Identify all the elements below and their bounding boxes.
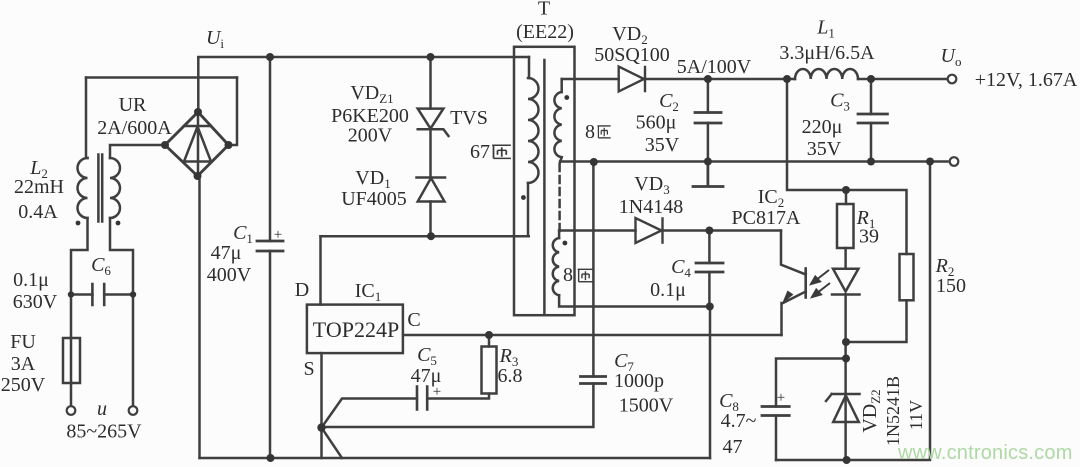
svg-text:11V: 11V bbox=[906, 400, 926, 430]
svg-text:u: u bbox=[97, 398, 107, 420]
svg-text:Ui: Ui bbox=[206, 27, 224, 51]
wire C4 bottom to bias return bbox=[708, 272, 711, 307]
svg-text:67: 67 bbox=[470, 141, 490, 163]
svg-text:+12V, 1.67A: +12V, 1.67A bbox=[975, 69, 1078, 91]
svg-text:VDZ2: VDZ2 bbox=[859, 389, 883, 432]
transformer T primary winding 67 turns bbox=[528, 78, 539, 183]
common-mode choke L2 left winding bbox=[78, 158, 88, 218]
turns glyph auxiliary bbox=[578, 269, 593, 281]
svg-text:0.1μ: 0.1μ bbox=[13, 269, 49, 291]
wire C5 to R3 bottom bbox=[427, 394, 489, 399]
wire D pin vertical bbox=[319, 236, 322, 304]
junction node C6 left bbox=[68, 291, 74, 297]
wire secondary top lead bbox=[560, 79, 563, 92]
opto light arrow 2 bbox=[812, 283, 830, 297]
transformer core dashed line bbox=[558, 164, 561, 231]
wire auxiliary winding top lead bbox=[558, 231, 561, 239]
wire C8 bottom bbox=[775, 416, 778, 461]
output terminal return bbox=[950, 157, 959, 166]
choke L2 core lines bbox=[98, 155, 102, 222]
svg-text:22mH: 22mH bbox=[14, 176, 64, 198]
svg-text:S: S bbox=[303, 358, 314, 380]
opto emitter arrowhead bbox=[782, 291, 794, 304]
junction node R1 top bbox=[842, 186, 850, 194]
svg-text:VDZ1: VDZ1 bbox=[350, 82, 393, 106]
phase dot auxiliary bbox=[563, 241, 568, 246]
wire top DC rail bbox=[198, 56, 529, 59]
junction node S pin bbox=[317, 423, 325, 431]
svg-text:www.cntronics.com: www.cntronics.com bbox=[897, 442, 1073, 464]
svg-text:150: 150 bbox=[936, 275, 966, 297]
svg-text:UF4005: UF4005 bbox=[341, 188, 407, 210]
wire L2 left bottom lead bbox=[71, 218, 88, 295]
capacitor C6 leads bbox=[71, 293, 133, 296]
junction node top rail clamp bbox=[427, 53, 435, 61]
wire C1 bottom to rail bbox=[269, 251, 272, 458]
wire LED cathode down bbox=[844, 295, 847, 461]
junction node VD3 C4 bbox=[705, 227, 713, 235]
turns glyph primary bbox=[492, 145, 511, 158]
output terminal plus bbox=[948, 75, 957, 84]
svg-text:85~265V: 85~265V bbox=[66, 421, 142, 443]
svg-text:+: + bbox=[433, 384, 441, 400]
optocoupler IC2 phototransistor bbox=[804, 269, 807, 298]
svg-text:C2: C2 bbox=[659, 90, 679, 114]
phase dot L2 right bbox=[116, 221, 121, 226]
svg-text:1N4148: 1N4148 bbox=[619, 196, 683, 218]
svg-text:FU: FU bbox=[10, 331, 36, 353]
wire C3 bottom bbox=[870, 123, 873, 162]
junction node drain line bbox=[427, 232, 435, 240]
transformer T auxiliary winding 8 turns bbox=[553, 238, 559, 295]
svg-text:39: 39 bbox=[859, 226, 879, 248]
svg-text:(EE22): (EE22) bbox=[516, 21, 574, 43]
wire C7 top to secondary ground bbox=[592, 162, 595, 377]
wire C1 branch vertical bbox=[269, 57, 272, 241]
wire primary ground rail bbox=[200, 457, 711, 460]
phase dot primary bbox=[521, 195, 526, 200]
transformer core line bbox=[543, 60, 546, 313]
svg-text:C3: C3 bbox=[830, 90, 850, 114]
wire S fan to primary ground rail bbox=[322, 428, 343, 458]
svg-text:47: 47 bbox=[723, 436, 743, 458]
resistor R1 branch bbox=[845, 190, 848, 204]
wire C6 left node down to fuse bbox=[70, 295, 73, 339]
wire L2 right winding top lead to bridge left vertex bbox=[110, 145, 165, 158]
svg-text:2A/600A: 2A/600A bbox=[97, 117, 172, 139]
wire feedback feed from L1 left node bbox=[787, 79, 907, 254]
capacitor C4 plates bbox=[696, 263, 723, 272]
wire auxiliary bottom lead bbox=[559, 295, 710, 306]
svg-text:5A/100V: 5A/100V bbox=[677, 56, 752, 78]
resistor R3 body bbox=[482, 347, 497, 394]
wire S fan to C5 line bbox=[322, 399, 418, 428]
svg-text:T: T bbox=[538, 0, 550, 20]
capacitor C2 branch bbox=[707, 79, 710, 113]
capacitor C4 branch bbox=[708, 231, 711, 264]
svg-text:400V: 400V bbox=[207, 264, 252, 286]
svg-text:8: 8 bbox=[585, 121, 595, 143]
svg-text:+: + bbox=[274, 227, 282, 243]
wire R3 top to control line bbox=[488, 335, 491, 347]
wire bridge bottom down to ground rail bbox=[198, 176, 201, 458]
wire loop right vertical to bridge right vertex bbox=[229, 78, 238, 146]
capacitor C5 plates bbox=[417, 387, 427, 410]
fuse FU body bbox=[63, 338, 80, 383]
wire top-left loop horizontal bbox=[86, 76, 237, 79]
junction node C2 bottom bbox=[704, 158, 712, 166]
capacitor C2 plates bbox=[695, 113, 721, 124]
junction node ground rail C1 bbox=[267, 454, 275, 462]
phase dot secondary bbox=[564, 95, 569, 100]
svg-text:250V: 250V bbox=[1, 374, 46, 396]
svg-text:TVS: TVS bbox=[450, 107, 488, 129]
wire drain line D bbox=[321, 235, 529, 238]
junction node top rail C1 bbox=[266, 53, 274, 61]
TVS VDZ1 bbox=[418, 109, 449, 136]
svg-text:L1: L1 bbox=[816, 17, 835, 41]
LED of optocoupler IC2 bbox=[832, 269, 860, 295]
diode VD3 line bbox=[559, 229, 781, 232]
op-amp U1 IC1 TOP224P box bbox=[307, 305, 403, 354]
svg-text:IC1: IC1 bbox=[355, 280, 382, 304]
wire R2 bottom bbox=[846, 300, 907, 342]
wire R1 to LED bbox=[844, 248, 847, 269]
svg-text:C4: C4 bbox=[671, 256, 691, 280]
wire secondary bottom lead bbox=[560, 157, 948, 162]
svg-text:50SQ100: 50SQ100 bbox=[594, 44, 670, 66]
svg-text:1500V: 1500V bbox=[619, 395, 674, 417]
capacitor C7 plates bbox=[581, 377, 606, 384]
junction node C6 right bbox=[130, 291, 136, 297]
svg-text:+: + bbox=[777, 390, 785, 406]
junction node LED cathode R2 bbox=[842, 338, 850, 346]
svg-text:UR: UR bbox=[119, 94, 147, 116]
junction node bias return bbox=[706, 303, 714, 311]
capacitor C1 plates bbox=[257, 241, 283, 251]
wire loop left vertical to L2 bbox=[86, 78, 88, 159]
wire primary top lead bbox=[528, 57, 531, 78]
svg-text:1000p: 1000p bbox=[614, 370, 664, 392]
wire VDZ1 to VD1 bbox=[429, 129, 432, 177]
svg-text:4.7~: 4.7~ bbox=[721, 410, 757, 432]
transformer T secondary winding 8 turns bbox=[554, 92, 561, 157]
wire C2 bottom bbox=[707, 123, 710, 162]
diode VD3 bbox=[636, 218, 663, 243]
junction node VDZ2 anode rail bbox=[843, 456, 851, 464]
svg-text:6.8: 6.8 bbox=[498, 365, 523, 387]
wire L2 right bottom lead bbox=[110, 218, 133, 295]
svg-text:1N5241B: 1N5241B bbox=[883, 376, 903, 446]
opto collector wire bbox=[781, 231, 806, 275]
turns glyph secondary bbox=[597, 126, 610, 138]
svg-text:C6: C6 bbox=[91, 254, 111, 278]
phase dot L2 left bbox=[76, 221, 81, 226]
svg-text:C: C bbox=[407, 309, 420, 331]
svg-text:TOP224P: TOP224P bbox=[313, 317, 399, 342]
fuse FU wire through bbox=[70, 338, 73, 383]
svg-text:0.4A: 0.4A bbox=[18, 201, 58, 223]
svg-text:35V: 35V bbox=[645, 134, 680, 156]
junction node C3 bottom bbox=[867, 158, 875, 166]
svg-text:8: 8 bbox=[563, 264, 573, 286]
resistor R2 body bbox=[900, 254, 914, 300]
bridge rectifier UR diamond bbox=[165, 112, 229, 176]
svg-text:D: D bbox=[295, 279, 309, 301]
bridge UR inner diode bbox=[184, 112, 211, 176]
capacitor C3 branch bbox=[870, 79, 873, 114]
capacitor C8 plates bbox=[762, 407, 789, 416]
junction node L1 right bbox=[867, 75, 875, 83]
junction node C2 top bbox=[704, 75, 712, 83]
wire S pin vertical bbox=[320, 353, 323, 458]
wire output top to terminal bbox=[946, 78, 949, 81]
wire primary bottom lead bbox=[527, 183, 530, 236]
resistor R1 body bbox=[837, 204, 854, 248]
bridge corner nodes bbox=[194, 108, 202, 116]
svg-text:47μ: 47μ bbox=[211, 242, 242, 264]
junction node C8 top bbox=[842, 355, 850, 363]
svg-text:560μ: 560μ bbox=[636, 112, 677, 134]
wire VD1 to drain line bbox=[429, 202, 432, 237]
junction node L1 left bbox=[783, 75, 791, 83]
wire C8 branch bbox=[776, 359, 846, 407]
wire clamp branch from rail bbox=[429, 57, 432, 109]
svg-text:PC817A: PC817A bbox=[732, 207, 801, 229]
svg-text:0.1μ: 0.1μ bbox=[650, 279, 686, 301]
wire Ui node stub to bridge top bbox=[197, 58, 200, 113]
zener VDZ2 bbox=[826, 394, 860, 422]
svg-text:220μ: 220μ bbox=[802, 116, 843, 138]
svg-text:35V: 35V bbox=[807, 138, 842, 160]
wire control line C bbox=[403, 334, 782, 337]
wire S fan middle line to C7 bbox=[322, 384, 594, 428]
capacitor C6 plates bbox=[92, 284, 104, 305]
opto emitter wire bbox=[782, 292, 806, 336]
wire fuse to left input terminal bbox=[70, 383, 73, 406]
wire secondary ground rail bbox=[776, 162, 930, 461]
diode VD2 bbox=[619, 67, 645, 92]
junction node control line R3 bbox=[485, 331, 493, 339]
svg-text:200V: 200V bbox=[348, 125, 393, 147]
junction node return terminal bbox=[926, 158, 934, 166]
wire bias return vertical bbox=[709, 307, 712, 459]
svg-text:3A: 3A bbox=[11, 353, 36, 375]
opto light arrow 1 bbox=[811, 270, 829, 284]
common-mode choke L2 right winding bbox=[110, 158, 120, 218]
svg-text:630V: 630V bbox=[13, 291, 58, 313]
svg-text:Uo: Uo bbox=[941, 45, 962, 69]
inductor L1 bbox=[795, 69, 858, 79]
wire secondary output top line bbox=[562, 78, 948, 81]
junction node secondary ground bbox=[590, 158, 598, 166]
transformer T outline box bbox=[514, 47, 575, 315]
svg-text:VD3: VD3 bbox=[634, 173, 669, 197]
input terminal left bbox=[67, 406, 76, 415]
input terminal right bbox=[129, 406, 138, 415]
diode VD1 bbox=[417, 178, 446, 202]
ground stub below output return bbox=[693, 162, 723, 187]
svg-text:3.3μH/6.5A: 3.3μH/6.5A bbox=[779, 42, 875, 64]
capacitor C3 plates bbox=[858, 114, 887, 123]
wire C6 right node down to right input terminal bbox=[132, 295, 135, 407]
